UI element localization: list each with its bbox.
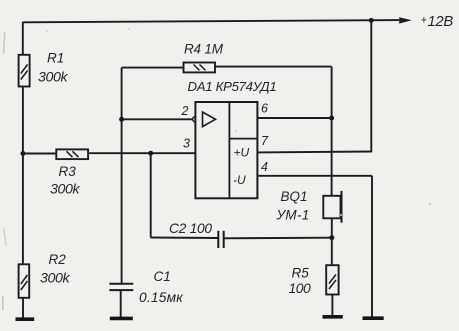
svg-text:УМ-1: УМ-1 xyxy=(276,208,310,223)
scan speck xyxy=(429,203,432,206)
svg-text:R5: R5 xyxy=(292,266,310,281)
scan speck xyxy=(235,130,237,132)
capacitor C2 xyxy=(169,221,224,248)
capacitor C1 xyxy=(109,269,183,305)
ground (R2) xyxy=(16,317,35,321)
svg-text:300k: 300k xyxy=(38,70,68,86)
wire R4 right to output node xyxy=(215,66,332,68)
svg-text:300k: 300k xyxy=(40,271,70,287)
wire R5 to ground xyxy=(331,295,333,317)
svg-text:R1: R1 xyxy=(47,51,64,66)
wire R3 to op-amp pin 3 xyxy=(88,152,195,154)
svg-text:DA1 КР574УД1: DA1 КР574УД1 xyxy=(188,79,277,94)
wire BQ1 bottom to R5 xyxy=(331,218,333,265)
node pin3 / C2 junction xyxy=(148,151,153,156)
wire pin 2 xyxy=(122,118,193,120)
svg-text:С2 100: С2 100 xyxy=(169,221,212,236)
scan speck xyxy=(2,296,4,310)
svg-text:0.15мк: 0.15мк xyxy=(139,290,183,305)
svg-text:12В: 12В xyxy=(428,14,454,30)
svg-text:2: 2 xyxy=(181,104,189,118)
resistor R3 xyxy=(50,149,88,197)
wire top +12V rail xyxy=(23,20,399,22)
resistor R1 xyxy=(19,51,69,87)
node pin 6 / output junction xyxy=(329,116,334,121)
node C2 / BQ1 / R5 junction xyxy=(329,235,334,240)
scan speck xyxy=(3,32,6,54)
wire R4 left xyxy=(122,67,184,69)
wire R2 to ground xyxy=(22,298,24,319)
svg-text:R4 1M: R4 1M xyxy=(184,42,224,57)
power +12V arrow xyxy=(399,14,453,30)
resistor R4 xyxy=(184,42,224,73)
ground (C1) xyxy=(110,317,133,321)
wire C2 branch horizontal xyxy=(151,237,218,240)
wire output vertical (R4 / pin6 / BQ1) xyxy=(331,67,333,196)
svg-text:7: 7 xyxy=(261,134,269,148)
svg-text:100: 100 xyxy=(289,281,312,296)
svg-text:+: + xyxy=(421,15,428,27)
wire C1 to ground xyxy=(120,290,122,318)
piezo element BQ1 УМ-1 xyxy=(276,189,342,223)
node left rail / R3 junction xyxy=(21,151,26,156)
scan speck xyxy=(128,28,130,30)
svg-text:С1: С1 xyxy=(154,269,171,284)
wire R3 left xyxy=(23,153,56,155)
svg-text:4: 4 xyxy=(261,160,268,174)
scan speck xyxy=(340,214,342,216)
node +12V junction xyxy=(369,18,374,23)
svg-text:+U: +U xyxy=(234,146,250,160)
ground (right) xyxy=(363,316,384,320)
svg-text:3: 3 xyxy=(183,137,190,151)
wire left rail upper xyxy=(22,22,24,55)
wire +12V vertical xyxy=(370,20,372,152)
svg-text:6: 6 xyxy=(261,102,268,116)
wire C2 right xyxy=(224,237,332,240)
wire feedback vertical (R4 / pin2 / C1) xyxy=(121,68,123,284)
wire pin 7 xyxy=(257,151,371,154)
svg-text:-U: -U xyxy=(233,173,246,187)
op-amp DA1 КР574УД1 xyxy=(188,79,277,198)
svg-text:R3: R3 xyxy=(59,164,77,179)
svg-text:300k: 300k xyxy=(50,182,80,198)
wire left rail middle xyxy=(22,87,24,265)
svg-text:R2: R2 xyxy=(49,252,67,267)
resistor R2 xyxy=(19,252,71,298)
wire right ground vertical xyxy=(371,176,373,318)
node feedback / pin2 junction xyxy=(119,117,124,122)
resistor R5 xyxy=(289,265,339,296)
scan speck xyxy=(3,228,7,246)
ground (R5) xyxy=(323,315,343,319)
op-amp DA1 inversion bubble pin 2 xyxy=(193,117,199,123)
svg-text:BQ1: BQ1 xyxy=(281,189,308,204)
wire pin 6 xyxy=(257,117,331,119)
wire C2 branch vertical xyxy=(150,153,152,237)
wire pin 4 xyxy=(257,175,372,177)
scan speck xyxy=(46,30,48,32)
